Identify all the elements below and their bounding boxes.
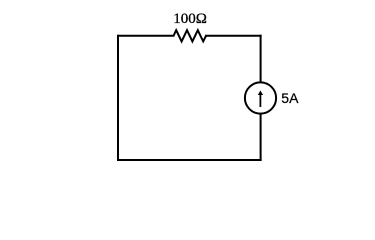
current source I1 circle body [245,82,276,113]
wire top-left segment [118,35,174,37]
svg-text:5A: 5A [281,90,299,106]
wire bottom side [118,159,261,161]
svg-text:100Ω: 100Ω [173,11,207,27]
wire left side [117,36,119,160]
current source arrowhead [258,90,263,95]
resistor R1 100Ω zigzag body [174,30,207,41]
wire top-right segment [206,35,261,37]
current source arrow shaft [259,94,261,107]
wire right side [260,36,262,160]
